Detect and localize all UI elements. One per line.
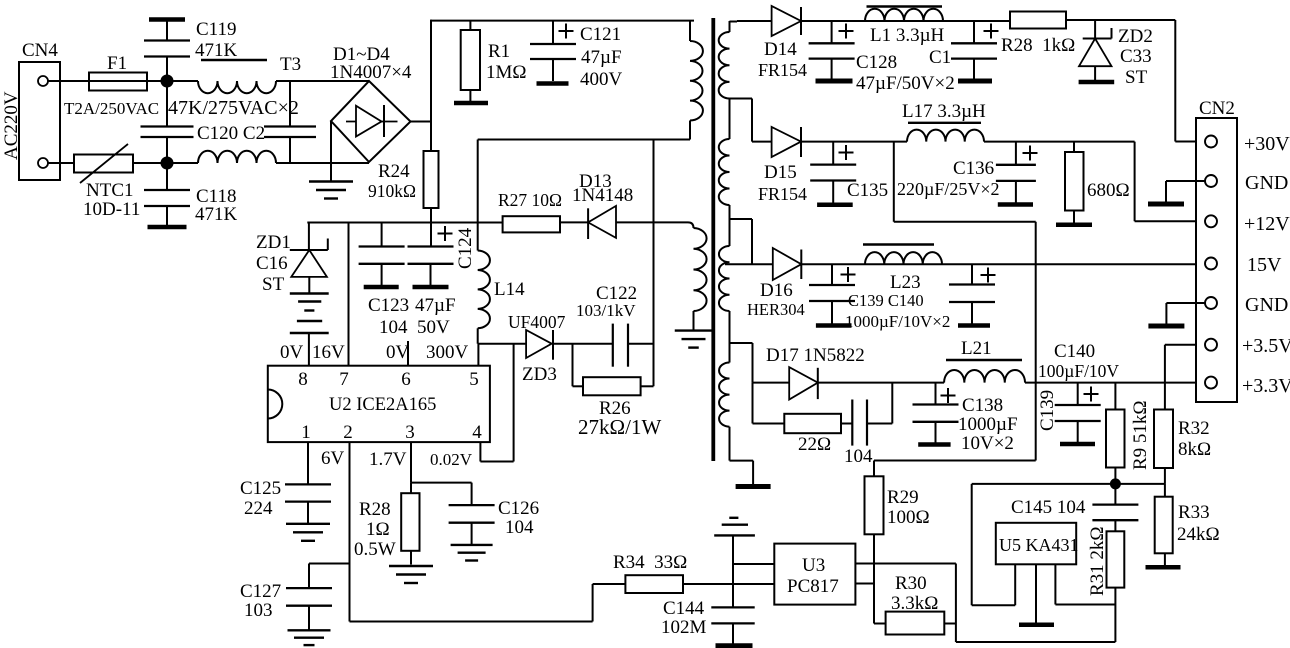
transformer core	[711, 18, 715, 461]
wire pin 3	[411, 442, 472, 483]
capacitor C123	[359, 223, 410, 339]
svg-text:L21: L21	[961, 338, 992, 359]
capacitor C139 on 15V rail	[809, 264, 950, 331]
svg-text:1: 1	[301, 422, 311, 443]
svg-text:C135: C135	[847, 180, 888, 201]
ground at 680Ω	[1056, 223, 1092, 228]
inductor L23	[863, 245, 942, 294]
svg-text:R32: R32	[1178, 418, 1210, 439]
inductor L1	[865, 7, 945, 47]
svg-text:C127: C127	[240, 581, 281, 602]
svg-text:C126: C126	[498, 498, 539, 519]
svg-text:ZD3: ZD3	[522, 364, 557, 385]
ground at bridge	[309, 121, 353, 199]
svg-text:ST: ST	[1125, 67, 1148, 88]
svg-text:L14: L14	[494, 279, 525, 300]
svg-text:FR154: FR154	[758, 60, 807, 80]
svg-text:8kΩ: 8kΩ	[1178, 439, 1211, 460]
shunt reference U5 KA431	[996, 523, 1079, 565]
pin 5 label	[469, 369, 479, 390]
wire D15 row	[752, 141, 772, 143]
wire D14 row	[737, 20, 772, 22]
svg-text:27kΩ/1W: 27kΩ/1W	[578, 415, 661, 439]
svg-text:1N4148: 1N4148	[572, 185, 633, 206]
svg-text:100µF/10V: 100µF/10V	[1038, 361, 1119, 381]
label +30V	[1244, 133, 1290, 155]
svg-text:103/1kV: 103/1kV	[576, 301, 636, 320]
pin 7 label	[339, 369, 349, 390]
pin 8 label	[298, 369, 308, 390]
wire D17 cathode row	[818, 382, 944, 384]
capacitor C144	[661, 598, 755, 646]
ground inverted at C144	[714, 518, 755, 608]
pin 4 label	[472, 422, 482, 443]
svg-text:L1 3.3µH: L1 3.3µH	[870, 25, 945, 46]
label +3.5V	[1242, 335, 1290, 357]
capacitor C136	[897, 142, 1038, 205]
svg-text:L17 3.3µH: L17 3.3µH	[902, 101, 986, 122]
wire U5 cathode lead	[1055, 564, 1115, 642]
capacitor C145	[1011, 484, 1138, 531]
svg-text:GND: GND	[1245, 172, 1288, 194]
svg-text:T2A/250VAC: T2A/250VAC	[64, 99, 159, 118]
capacitor C138	[913, 383, 1018, 454]
resistor R29	[865, 476, 930, 623]
wire T3 to bridge bottom	[276, 162, 369, 164]
capacitor C126	[449, 483, 540, 545]
svg-text:C120 C2: C120 C2	[197, 123, 265, 144]
svg-text:104: 104	[844, 446, 873, 467]
svg-text:47µF/50V×2: 47µF/50V×2	[856, 73, 955, 94]
svg-text:U2 ICE2A165: U2 ICE2A165	[329, 395, 436, 415]
svg-text:+30V: +30V	[1244, 133, 1290, 155]
svg-text:R24: R24	[378, 161, 410, 182]
wire secondary top tap	[730, 21, 738, 23]
wire C127 branch	[309, 563, 350, 565]
svg-text:C1: C1	[929, 47, 951, 68]
wire secondary bottom	[730, 461, 754, 485]
wire primary bottom	[478, 139, 690, 141]
label 15V	[1247, 254, 1282, 276]
svg-text:16V: 16V	[312, 342, 345, 363]
svg-text:300V: 300V	[426, 342, 469, 363]
svg-text:1000µF/10V×2: 1000µF/10V×2	[845, 312, 950, 331]
svg-text:C144: C144	[663, 598, 705, 619]
svg-text:L23: L23	[890, 272, 921, 293]
svg-text:104: 104	[505, 517, 534, 538]
node A junction	[161, 75, 174, 88]
wire NTC1 to node B	[133, 162, 198, 164]
wire U5 ref lead	[972, 484, 1016, 605]
svg-text:3: 3	[405, 422, 415, 443]
optocoupler U3 PC817	[774, 544, 855, 605]
wire 15V takeoff branch	[894, 142, 1036, 461]
svg-text:ST: ST	[262, 274, 285, 295]
svg-text:C119: C119	[196, 19, 236, 40]
zener ZD1	[256, 223, 328, 296]
inductor L21	[944, 338, 1025, 383]
svg-text:5: 5	[469, 369, 479, 390]
wire R28 to CN2 +30V	[1066, 20, 1206, 142]
svg-text:103: 103	[244, 600, 273, 621]
svg-text:471K: 471K	[195, 204, 238, 225]
IC U2 ICE2A165	[268, 366, 490, 442]
svg-text:C136: C136	[953, 158, 994, 179]
resistor R1	[454, 21, 527, 103]
diode D15	[758, 127, 807, 204]
wire +3.5V pin	[1165, 345, 1206, 383]
wire secondary tap3	[730, 343, 753, 383]
resistor R28 1kΩ	[1001, 12, 1075, 57]
wire PC817 pin4 collector	[855, 564, 1115, 643]
capacitor C2	[264, 81, 316, 163]
capacitor C127	[240, 564, 332, 631]
resistor R34	[593, 552, 775, 622]
ground at CN2 pin5	[1148, 303, 1205, 326]
node divider junction	[1110, 478, 1121, 489]
fuse F1	[64, 53, 159, 118]
capacitor C120	[141, 87, 266, 157]
svg-text:F1: F1	[107, 53, 127, 74]
svg-text:C138: C138	[962, 395, 1003, 416]
capacitor C140 on 15V rail	[949, 264, 996, 325]
capacitor C124	[408, 226, 477, 338]
wire U5 anode lead	[1035, 564, 1037, 622]
pin 1 label	[301, 422, 311, 443]
svg-text:D14: D14	[764, 39, 797, 60]
svg-text:471K: 471K	[195, 40, 238, 61]
svg-text:6: 6	[401, 369, 411, 390]
svg-text:C121: C121	[580, 24, 621, 45]
svg-text:R27 10Ω: R27 10Ω	[498, 190, 562, 210]
svg-text:HER304: HER304	[747, 300, 805, 319]
svg-text:U5 KA431: U5 KA431	[999, 535, 1079, 555]
svg-text:+12V: +12V	[1244, 213, 1290, 235]
wire bridge output	[411, 121, 432, 123]
svg-text:4: 4	[472, 422, 482, 443]
svg-text:C124: C124	[455, 227, 476, 269]
wire secondary tap1	[730, 99, 753, 142]
wire D13 to aux winding	[616, 221, 688, 223]
label GND 2	[1245, 294, 1288, 316]
svg-text:GND: GND	[1245, 294, 1288, 316]
svg-text:1.7V: 1.7V	[369, 449, 407, 470]
label 0V 16V	[280, 342, 345, 363]
label 47K/275VAC	[168, 97, 299, 119]
capacitor C1	[929, 21, 999, 81]
transformer primary winding	[690, 21, 703, 140]
resistor R28 1Ω	[354, 483, 420, 565]
svg-text:22Ω: 22Ω	[798, 434, 831, 455]
resistor R33	[1155, 484, 1220, 565]
wire C122 to snubber drop	[628, 343, 654, 345]
svg-text:C139 C140: C139 C140	[848, 291, 924, 310]
label AC220V	[1, 91, 22, 160]
resistor R9	[1106, 383, 1151, 484]
svg-text:+3.5V: +3.5V	[1242, 335, 1290, 357]
svg-text:220µF/25V×2: 220µF/25V×2	[897, 179, 1000, 199]
wire D17 row	[753, 382, 790, 384]
svg-text:10V×2: 10V×2	[961, 433, 1014, 454]
svg-text:1Ω: 1Ω	[366, 519, 390, 540]
label 6V	[321, 448, 345, 469]
zener ZD3	[508, 312, 566, 385]
svg-text:D16: D16	[760, 280, 793, 301]
wire snubber drop	[653, 140, 655, 387]
svg-text:R29: R29	[887, 487, 919, 508]
svg-text:224: 224	[244, 498, 273, 519]
ground at C125	[286, 524, 330, 541]
svg-text:C145 104: C145 104	[1011, 497, 1086, 518]
svg-text:100Ω: 100Ω	[887, 507, 930, 528]
wire ZD3 to C122	[553, 343, 613, 345]
node B junction	[161, 157, 174, 170]
svg-text:R1: R1	[488, 41, 510, 62]
wire divider node	[972, 483, 1165, 485]
wire CN4 bottom to NTC1	[48, 162, 74, 164]
wire PC817 pin2	[733, 563, 774, 565]
label GND 1	[1245, 172, 1288, 194]
resistor 680Ω	[1065, 142, 1130, 223]
svg-text:1000µF: 1000µF	[958, 414, 1018, 435]
svg-text:R28 1kΩ: R28 1kΩ	[1001, 35, 1075, 56]
resistor 22Ω snubber	[753, 383, 853, 455]
bridge rectifier D1~D4	[330, 44, 412, 162]
capacitor C125	[240, 442, 331, 524]
pin 2 label	[343, 422, 353, 443]
svg-text:400V: 400V	[580, 69, 623, 90]
svg-text:D15: D15	[764, 162, 797, 183]
svg-text:R33: R33	[1178, 502, 1210, 523]
ground at U5	[1019, 623, 1054, 628]
svg-text:C128: C128	[856, 52, 897, 73]
svg-text:UF4007: UF4007	[508, 312, 566, 332]
svg-text:ZD2: ZD2	[1118, 26, 1153, 47]
wire VCC rail	[307, 222, 502, 224]
label 1.7V	[369, 449, 407, 470]
ground at secondary bottom	[736, 484, 771, 489]
svg-text:T3: T3	[280, 54, 301, 75]
resistor R31	[1087, 526, 1124, 604]
svg-text:47µF: 47µF	[581, 47, 622, 68]
svg-text:1MΩ: 1MΩ	[486, 62, 527, 83]
label C140 100µF/10V	[1038, 341, 1119, 381]
svg-text:8: 8	[298, 369, 308, 390]
svg-text:C16: C16	[256, 253, 288, 274]
capacitor C119	[144, 19, 238, 81]
capacitor C135	[810, 142, 888, 205]
wire CN4 top to F1	[48, 80, 89, 82]
svg-text:C139: C139	[1037, 390, 1058, 431]
svg-text:910kΩ: 910kΩ	[368, 181, 416, 201]
resistor R27	[498, 190, 562, 232]
svg-text:CN4: CN4	[22, 40, 58, 61]
wire D14 cathode row	[801, 20, 1010, 22]
svg-text:47µF: 47µF	[415, 295, 456, 316]
transformer aux winding	[688, 222, 707, 330]
wire pin4 jog	[480, 344, 513, 462]
label +3.3V	[1242, 375, 1290, 397]
svg-text:3.3kΩ: 3.3kΩ	[891, 593, 938, 614]
wire F1 to node A	[147, 80, 198, 82]
svg-text:C33: C33	[1120, 46, 1152, 67]
svg-text:2: 2	[343, 422, 353, 443]
svg-text:PC817: PC817	[787, 576, 839, 597]
svg-text:+3.3V: +3.3V	[1242, 375, 1290, 397]
svg-text:R30: R30	[895, 573, 927, 594]
wire D16 row	[725, 263, 773, 265]
diode D13	[572, 171, 633, 239]
resistor R26	[573, 344, 662, 439]
wire pin 2 feedback	[350, 442, 593, 621]
svg-text:1N4007×4: 1N4007×4	[330, 62, 412, 83]
wire PC817 pin3	[855, 583, 874, 585]
svg-text:6V: 6V	[321, 448, 345, 469]
capacitor C128	[809, 21, 955, 94]
wire pin5 node	[478, 344, 526, 366]
svg-text:U3: U3	[802, 555, 825, 576]
zener ZD2	[1079, 20, 1153, 88]
wire +12V corner	[1135, 142, 1206, 222]
wire L17 to corner	[984, 141, 1135, 143]
wire D15 cathode row	[801, 141, 907, 143]
svg-text:C125: C125	[240, 478, 281, 499]
svg-text:NTC1: NTC1	[86, 180, 134, 201]
svg-text:R9 51kΩ: R9 51kΩ	[1130, 400, 1151, 470]
svg-text:R31 2kΩ: R31 2kΩ	[1087, 526, 1108, 596]
svg-text:FR154: FR154	[758, 184, 807, 204]
wire drain line	[477, 140, 479, 251]
svg-text:50V: 50V	[417, 317, 450, 338]
wire pin 7 to VCC rail	[348, 223, 350, 366]
capacitor C139 on 3.3V rail	[1037, 383, 1101, 444]
ground at C127	[288, 630, 331, 645]
svg-text:R28: R28	[359, 499, 391, 520]
svg-text:7: 7	[339, 369, 349, 390]
connector CN4	[19, 40, 60, 180]
resistor R32	[1154, 383, 1211, 484]
ground at aux winding	[675, 331, 713, 348]
svg-text:0V: 0V	[386, 342, 410, 363]
wire R29 feed	[874, 461, 1036, 477]
svg-text:47K/275VAC×2: 47K/275VAC×2	[168, 97, 299, 119]
wire D16 cathode row	[801, 263, 1206, 265]
capacitor 104 snubber	[844, 383, 892, 467]
diode D17	[766, 345, 865, 400]
svg-text:10D-11: 10D-11	[83, 199, 140, 220]
svg-text:ZD1: ZD1	[256, 232, 291, 253]
diode D16	[747, 248, 805, 319]
ground stack at ZD1 and pin 8	[290, 294, 329, 366]
ground at C126	[451, 545, 493, 561]
label 0V 300V	[386, 342, 469, 363]
svg-text:D17 1N5822: D17 1N5822	[766, 345, 865, 366]
ground at R28	[389, 566, 433, 583]
diode D14	[758, 6, 807, 80]
inductor L14	[478, 251, 525, 344]
resistor R30	[874, 573, 956, 635]
svg-text:24kΩ: 24kΩ	[1177, 524, 1220, 545]
svg-text:0.02V: 0.02V	[430, 450, 473, 469]
wire secondary tap2	[730, 219, 753, 264]
pin 6 label	[401, 369, 411, 390]
wire R27 to D13	[560, 221, 588, 223]
thermistor NTC1	[74, 144, 140, 220]
svg-text:AC220V: AC220V	[1, 91, 22, 160]
svg-text:680Ω: 680Ω	[1087, 180, 1130, 201]
resistor R24	[368, 151, 439, 246]
svg-text:15V: 15V	[1247, 254, 1282, 276]
pin 6 stub	[407, 341, 409, 366]
svg-text:0V: 0V	[280, 342, 304, 363]
wire +3.3V row	[1025, 382, 1206, 384]
wire B+ rail top	[431, 20, 695, 151]
svg-text:C140: C140	[1054, 341, 1095, 362]
ground at CN2 pin2	[1148, 181, 1206, 204]
transformer secondary winding	[719, 21, 730, 461]
capacitor C118	[144, 163, 238, 227]
common-mode choke T3	[198, 54, 301, 163]
svg-text:104: 104	[379, 317, 408, 338]
pin 3 label	[405, 422, 415, 443]
label +12V	[1244, 213, 1290, 235]
capacitor C121	[530, 21, 623, 90]
wire T3 to bridge top	[276, 80, 369, 82]
inductor L17	[902, 101, 986, 142]
svg-text:C123: C123	[368, 295, 409, 316]
svg-text:102M: 102M	[661, 617, 707, 638]
ground at R33	[1146, 565, 1181, 570]
label 0.02V	[430, 450, 473, 469]
svg-text:CN2: CN2	[1199, 98, 1235, 119]
svg-text:R34 33Ω: R34 33Ω	[613, 552, 687, 573]
capacitor C122	[576, 283, 637, 367]
connector CN2	[1196, 98, 1237, 402]
svg-text:0.5W: 0.5W	[354, 539, 396, 560]
